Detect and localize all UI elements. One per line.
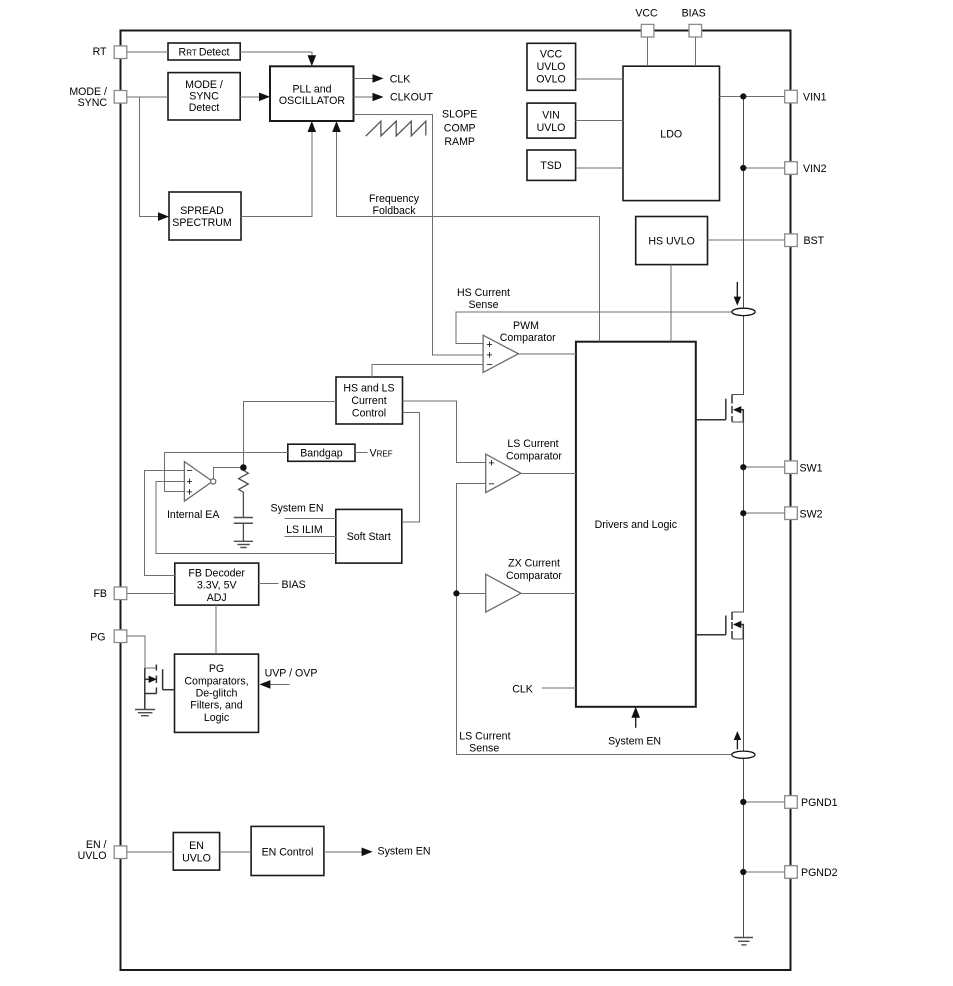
pin RT — [114, 46, 127, 59]
block EN UVLO — [173, 833, 219, 871]
svg-text:VCC: VCC — [635, 7, 658, 19]
pin MODE/SYNC — [114, 91, 127, 104]
svg-text:UVLO: UVLO — [537, 61, 566, 73]
wire PWM comparator minus input from HS/LS control top — [372, 365, 483, 378]
wire frequency foldback: Drivers top to PLL bottom — [337, 132, 600, 342]
svg-text:Sense: Sense — [469, 743, 499, 755]
pin EN/UVLO — [114, 846, 127, 859]
svg-text:PGND2: PGND2 — [801, 867, 838, 879]
block PG Comparators — [175, 654, 259, 732]
block MODE/SYNC Detect — [168, 73, 240, 120]
wire UVP/OVP into PG comparators — [270, 683, 289, 685]
pin VIN1 — [785, 90, 798, 103]
wire soft start right to HS/LS control right — [402, 413, 420, 523]
svg-text:CLKOUT: CLKOUT — [390, 92, 433, 104]
wire CLK output — [354, 77, 374, 79]
svg-text:FB: FB — [93, 588, 107, 600]
node VIN1 junction — [740, 93, 746, 99]
svg-text:PGND1: PGND1 — [801, 797, 838, 809]
svg-text:+: + — [186, 487, 192, 499]
svg-text:EN: EN — [189, 840, 204, 852]
wire EN UVLO to EN Control — [220, 851, 252, 853]
svg-text:Frequency: Frequency — [369, 193, 420, 205]
transistor PG FET body arrow — [149, 676, 157, 683]
wire internal EA output to resistor top node — [213, 468, 243, 479]
arrowhead CLK — [373, 74, 384, 83]
svg-text:Foldback: Foldback — [373, 205, 417, 217]
block TSD — [527, 150, 576, 180]
block VCC UVLO OVLO — [527, 43, 576, 90]
svg-text:SPREAD: SPREAD — [180, 205, 224, 217]
svg-text:FB Decoder: FB Decoder — [188, 568, 245, 580]
svg-text:De-glitch: De-glitch — [196, 688, 238, 700]
wire HS current sense line to HS sense ellipse — [456, 312, 731, 344]
arrowhead LS current sense direction (up) — [734, 731, 741, 740]
svg-text:RT: RT — [93, 46, 107, 58]
block FB Decoder — [175, 563, 259, 605]
wire MODE/SYNC Detect to PLL left — [240, 96, 259, 98]
svg-text:BST: BST — [804, 235, 825, 247]
svg-text:Comparator: Comparator — [500, 332, 556, 344]
svg-text:CLK: CLK — [390, 73, 411, 85]
svg-text:VIN2: VIN2 — [803, 163, 827, 175]
wire PWM comparator output to Drivers — [518, 353, 576, 355]
capacitor C (EA network) top plate — [234, 517, 253, 519]
block VIN UVLO — [527, 103, 576, 138]
ground (PGND) — [734, 938, 753, 945]
svg-text:EN Control: EN Control — [262, 847, 314, 859]
arrowhead into SPREAD SPECTRUM — [158, 212, 169, 221]
ground (EA network) — [234, 541, 253, 547]
wire LDO output to VIN1 pin — [720, 95, 785, 97]
wire HS sense arrow shaft — [736, 282, 738, 298]
svg-text:Drivers and Logic: Drivers and Logic — [595, 519, 678, 531]
svg-text:ZX Current: ZX Current — [508, 558, 560, 570]
arrowhead HS current sense direction (down) — [734, 297, 741, 306]
wire RRT Detect to PLL top — [240, 52, 312, 58]
svg-text:VIN1: VIN1 — [803, 91, 827, 103]
wire TSD to LDO — [576, 167, 623, 169]
svg-text:System EN: System EN — [378, 845, 431, 857]
wire EA mid plus input to soft start line — [156, 482, 336, 554]
svg-text:BIAS: BIAS — [682, 7, 706, 19]
svg-text:Logic: Logic — [204, 712, 230, 724]
svg-text:Soft Start: Soft Start — [347, 531, 391, 543]
arrowhead into PLL top (from RRT Detect) — [308, 55, 317, 66]
arrowhead into PLL left (from MODE/SYNC Detect) — [259, 93, 270, 102]
arrowhead System EN output — [362, 848, 373, 857]
wire VCC UVLO OVLO to LDO — [576, 78, 623, 80]
wire EN Control to System EN arrow — [324, 851, 362, 853]
svg-text:Filters, and: Filters, and — [190, 700, 243, 712]
svg-text:ADJ: ADJ — [207, 592, 227, 604]
svg-text:Comparators,: Comparators, — [184, 676, 248, 688]
wire LS ILIM to soft start — [284, 536, 336, 538]
pin SW1 — [785, 461, 798, 474]
wire CLK into Drivers — [542, 687, 576, 689]
svg-text:3.3V, 5V: 3.3V, 5V — [197, 580, 238, 592]
node ZX input junction — [453, 590, 459, 596]
svg-text:RAMP: RAMP — [444, 136, 475, 148]
svg-text:−: − — [488, 478, 494, 490]
wire PG pin to PG MOSFET drain — [127, 636, 157, 668]
transistor HS power FET body arrow — [733, 406, 741, 413]
wire LS FET source to LS sense ellipse — [732, 639, 743, 752]
wire PGND rail (ellipse to ground) — [742, 759, 744, 938]
svg-text:MODE /: MODE / — [185, 79, 223, 91]
wire slope comp ramp: PLL right to PWM comparator mid input — [354, 115, 484, 355]
svg-text:PLL and: PLL and — [292, 84, 331, 96]
wire EA minus input down to FB decoder — [145, 470, 185, 575]
wire VIN rail to VIN2 pin — [743, 167, 784, 169]
node SW2 junction — [740, 510, 746, 516]
op-amp Internal EA output bubble — [211, 479, 216, 484]
node PGND2 junction — [740, 869, 746, 875]
svg-text:Control: Control — [352, 408, 386, 420]
wire HS/LS control right to LS comparator plus — [403, 401, 486, 463]
IC boundary box — [121, 31, 791, 971]
wire CLKOUT output — [354, 96, 374, 98]
svg-text:RRT Detect: RRT Detect — [179, 47, 230, 59]
svg-text:LDO: LDO — [660, 128, 682, 140]
arrowhead System EN into Drivers bottom — [631, 707, 640, 718]
svg-text:−: − — [486, 359, 492, 371]
node PGND1 junction — [740, 799, 746, 805]
ground (PG FET source) — [135, 710, 155, 716]
svg-text:Comparator: Comparator — [506, 450, 562, 462]
svg-text:SLOPE: SLOPE — [442, 109, 477, 121]
svg-text:Current: Current — [351, 395, 386, 407]
wire SW node to SW2 pin — [743, 512, 784, 514]
arrowhead into PLL bottom (from SPREAD SPECTRUM) — [308, 121, 317, 132]
op-amp Internal EA — [184, 462, 212, 502]
svg-text:BIAS: BIAS — [282, 579, 306, 591]
svg-text:LS ILIM: LS ILIM — [286, 524, 323, 536]
wire VIN rail (ellipse to HS FET drain) — [732, 316, 743, 395]
svg-text:SW2: SW2 — [800, 508, 823, 520]
svg-text:Bandgap: Bandgap — [300, 448, 343, 460]
block PLL and OSCILLATOR — [270, 66, 354, 121]
transistor PG pull-down FET — [145, 665, 175, 709]
transistor HS power FET — [697, 395, 744, 422]
wire System EN arrow shaft into Drivers bottom — [635, 716, 637, 728]
block Soft Start — [336, 509, 402, 563]
LS current sense element — [732, 751, 755, 758]
svg-text:UVP / OVP: UVP / OVP — [265, 667, 318, 679]
transistor LS power FET body arrow — [733, 621, 741, 628]
pin FB — [114, 587, 127, 600]
svg-text:VREF: VREF — [370, 447, 393, 459]
svg-text:PG: PG — [209, 663, 224, 675]
wire VCC pin down to LDO top — [647, 37, 649, 66]
wire ZX comparator input branch — [456, 592, 485, 594]
wire SPREAD SPECTRUM to PLL bottom — [241, 132, 312, 217]
HS current sense element — [732, 308, 755, 315]
svg-text:TSD: TSD — [540, 160, 562, 172]
svg-text:HS Current: HS Current — [457, 287, 510, 299]
svg-text:Internal EA: Internal EA — [167, 509, 220, 521]
pin PGND2 — [785, 866, 798, 879]
svg-text:UVLO: UVLO — [78, 850, 107, 862]
pin VIN2 — [785, 162, 798, 175]
wire LS comparator output to Drivers — [521, 472, 576, 474]
wire EN pin to EN UVLO — [127, 851, 174, 853]
svg-text:UVLO: UVLO — [537, 122, 566, 134]
wire FB pin to FB decoder — [127, 592, 175, 594]
block Drivers and Logic — [576, 342, 696, 707]
block Bandgap — [288, 444, 355, 461]
pin PGND1 — [785, 796, 798, 809]
svg-text:UVLO: UVLO — [182, 853, 211, 865]
block HS and LS Current Control — [336, 377, 403, 424]
node VIN2 junction — [740, 165, 746, 171]
svg-text:System EN: System EN — [271, 503, 324, 515]
arrowhead UVP/OVP into PG comparators — [259, 680, 270, 689]
wire RT pin to RRT Detect — [127, 51, 168, 53]
svg-text:System EN: System EN — [608, 735, 661, 747]
wire BIAS pin down to LDO top — [694, 37, 696, 66]
op-amp LS Current Comparator — [486, 454, 521, 493]
svg-text:PWM: PWM — [513, 320, 539, 332]
pin SW2 — [785, 507, 798, 520]
wire MODE/SYNC pin to MODE/SYNC Detect — [127, 96, 168, 98]
node SW1 junction — [740, 464, 746, 470]
wire VIN rail (VIN1 to HS sense ellipse) — [742, 96, 744, 308]
svg-text:CLK: CLK — [512, 684, 533, 696]
resistor (EA output divider) — [239, 468, 249, 518]
pin BIAS — [689, 24, 702, 37]
arrowhead into PLL bottom (frequency foldback) — [332, 121, 341, 132]
capacitor C (EA network) bottom plate — [234, 522, 253, 524]
pin BST — [785, 234, 798, 247]
wire bandgap left to EA plus input — [165, 452, 288, 491]
svg-text:EN /: EN / — [86, 839, 107, 851]
wire BIAS stub from FB decoder — [259, 583, 279, 585]
wire PGND rail to PGND1 pin — [743, 801, 784, 803]
wire System EN to soft start — [284, 518, 336, 520]
node EA output / resistor top — [240, 464, 247, 471]
block LDO — [623, 66, 720, 200]
wire HS/LS control left to resistor top node — [243, 402, 336, 468]
op-amp PWM Comparator — [483, 335, 518, 372]
wire VREF stub — [355, 451, 368, 453]
svg-text:OSCILLATOR: OSCILLATOR — [279, 95, 345, 107]
block EN Control — [251, 826, 324, 875]
wire capacitor to ground — [242, 523, 244, 541]
block RRT Detect — [168, 43, 240, 60]
arrowhead CLKOUT — [373, 93, 384, 102]
block HS UVLO — [636, 217, 708, 265]
slope comp ramp waveform — [366, 121, 426, 136]
svg-text:PG: PG — [90, 631, 105, 643]
svg-text:OVLO: OVLO — [536, 74, 565, 86]
wire FB decoder bottom to PG comparators — [215, 605, 217, 654]
wire LS comparator minus / ZX input / LS sense vertical — [456, 484, 731, 755]
svg-text:SW1: SW1 — [800, 462, 823, 474]
svg-text:Sense: Sense — [468, 299, 498, 311]
svg-text:Detect: Detect — [189, 102, 220, 114]
wire MODE/SYNC branch down to SPREAD SPECTRUM — [140, 97, 159, 217]
svg-text:LS Current: LS Current — [507, 438, 558, 450]
wire VIN UVLO to LDO — [576, 120, 623, 122]
svg-text:VCC: VCC — [540, 49, 563, 61]
svg-text:HS UVLO: HS UVLO — [648, 236, 695, 248]
op-amp ZX Current Comparator — [486, 574, 521, 612]
svg-text:SPECTRUM: SPECTRUM — [172, 217, 231, 229]
svg-text:LS Current: LS Current — [459, 731, 510, 743]
wire PGND rail to PGND2 pin — [743, 871, 784, 873]
svg-text:SYNC: SYNC — [189, 91, 219, 103]
wire SW rail (HS FET source to LS FET drain) — [732, 422, 743, 612]
svg-text:Comparator: Comparator — [506, 570, 562, 582]
svg-text:VIN: VIN — [542, 110, 560, 122]
svg-text:+: + — [488, 457, 494, 469]
pin VCC — [641, 24, 654, 37]
pin PG — [114, 630, 127, 643]
block SPREAD SPECTRUM — [169, 192, 241, 240]
wire ZX comparator output to Drivers — [521, 592, 576, 594]
wire HS UVLO down to Drivers top — [670, 265, 672, 342]
svg-text:COMP: COMP — [444, 122, 476, 134]
svg-text:SYNC: SYNC — [78, 97, 108, 109]
transistor LS power FET — [697, 612, 744, 639]
wire HS UVLO to BST pin — [708, 239, 785, 241]
wire LS sense arrow shaft — [736, 739, 738, 750]
svg-text:HS and LS: HS and LS — [343, 383, 394, 395]
wire SW node to SW1 pin — [743, 466, 784, 468]
